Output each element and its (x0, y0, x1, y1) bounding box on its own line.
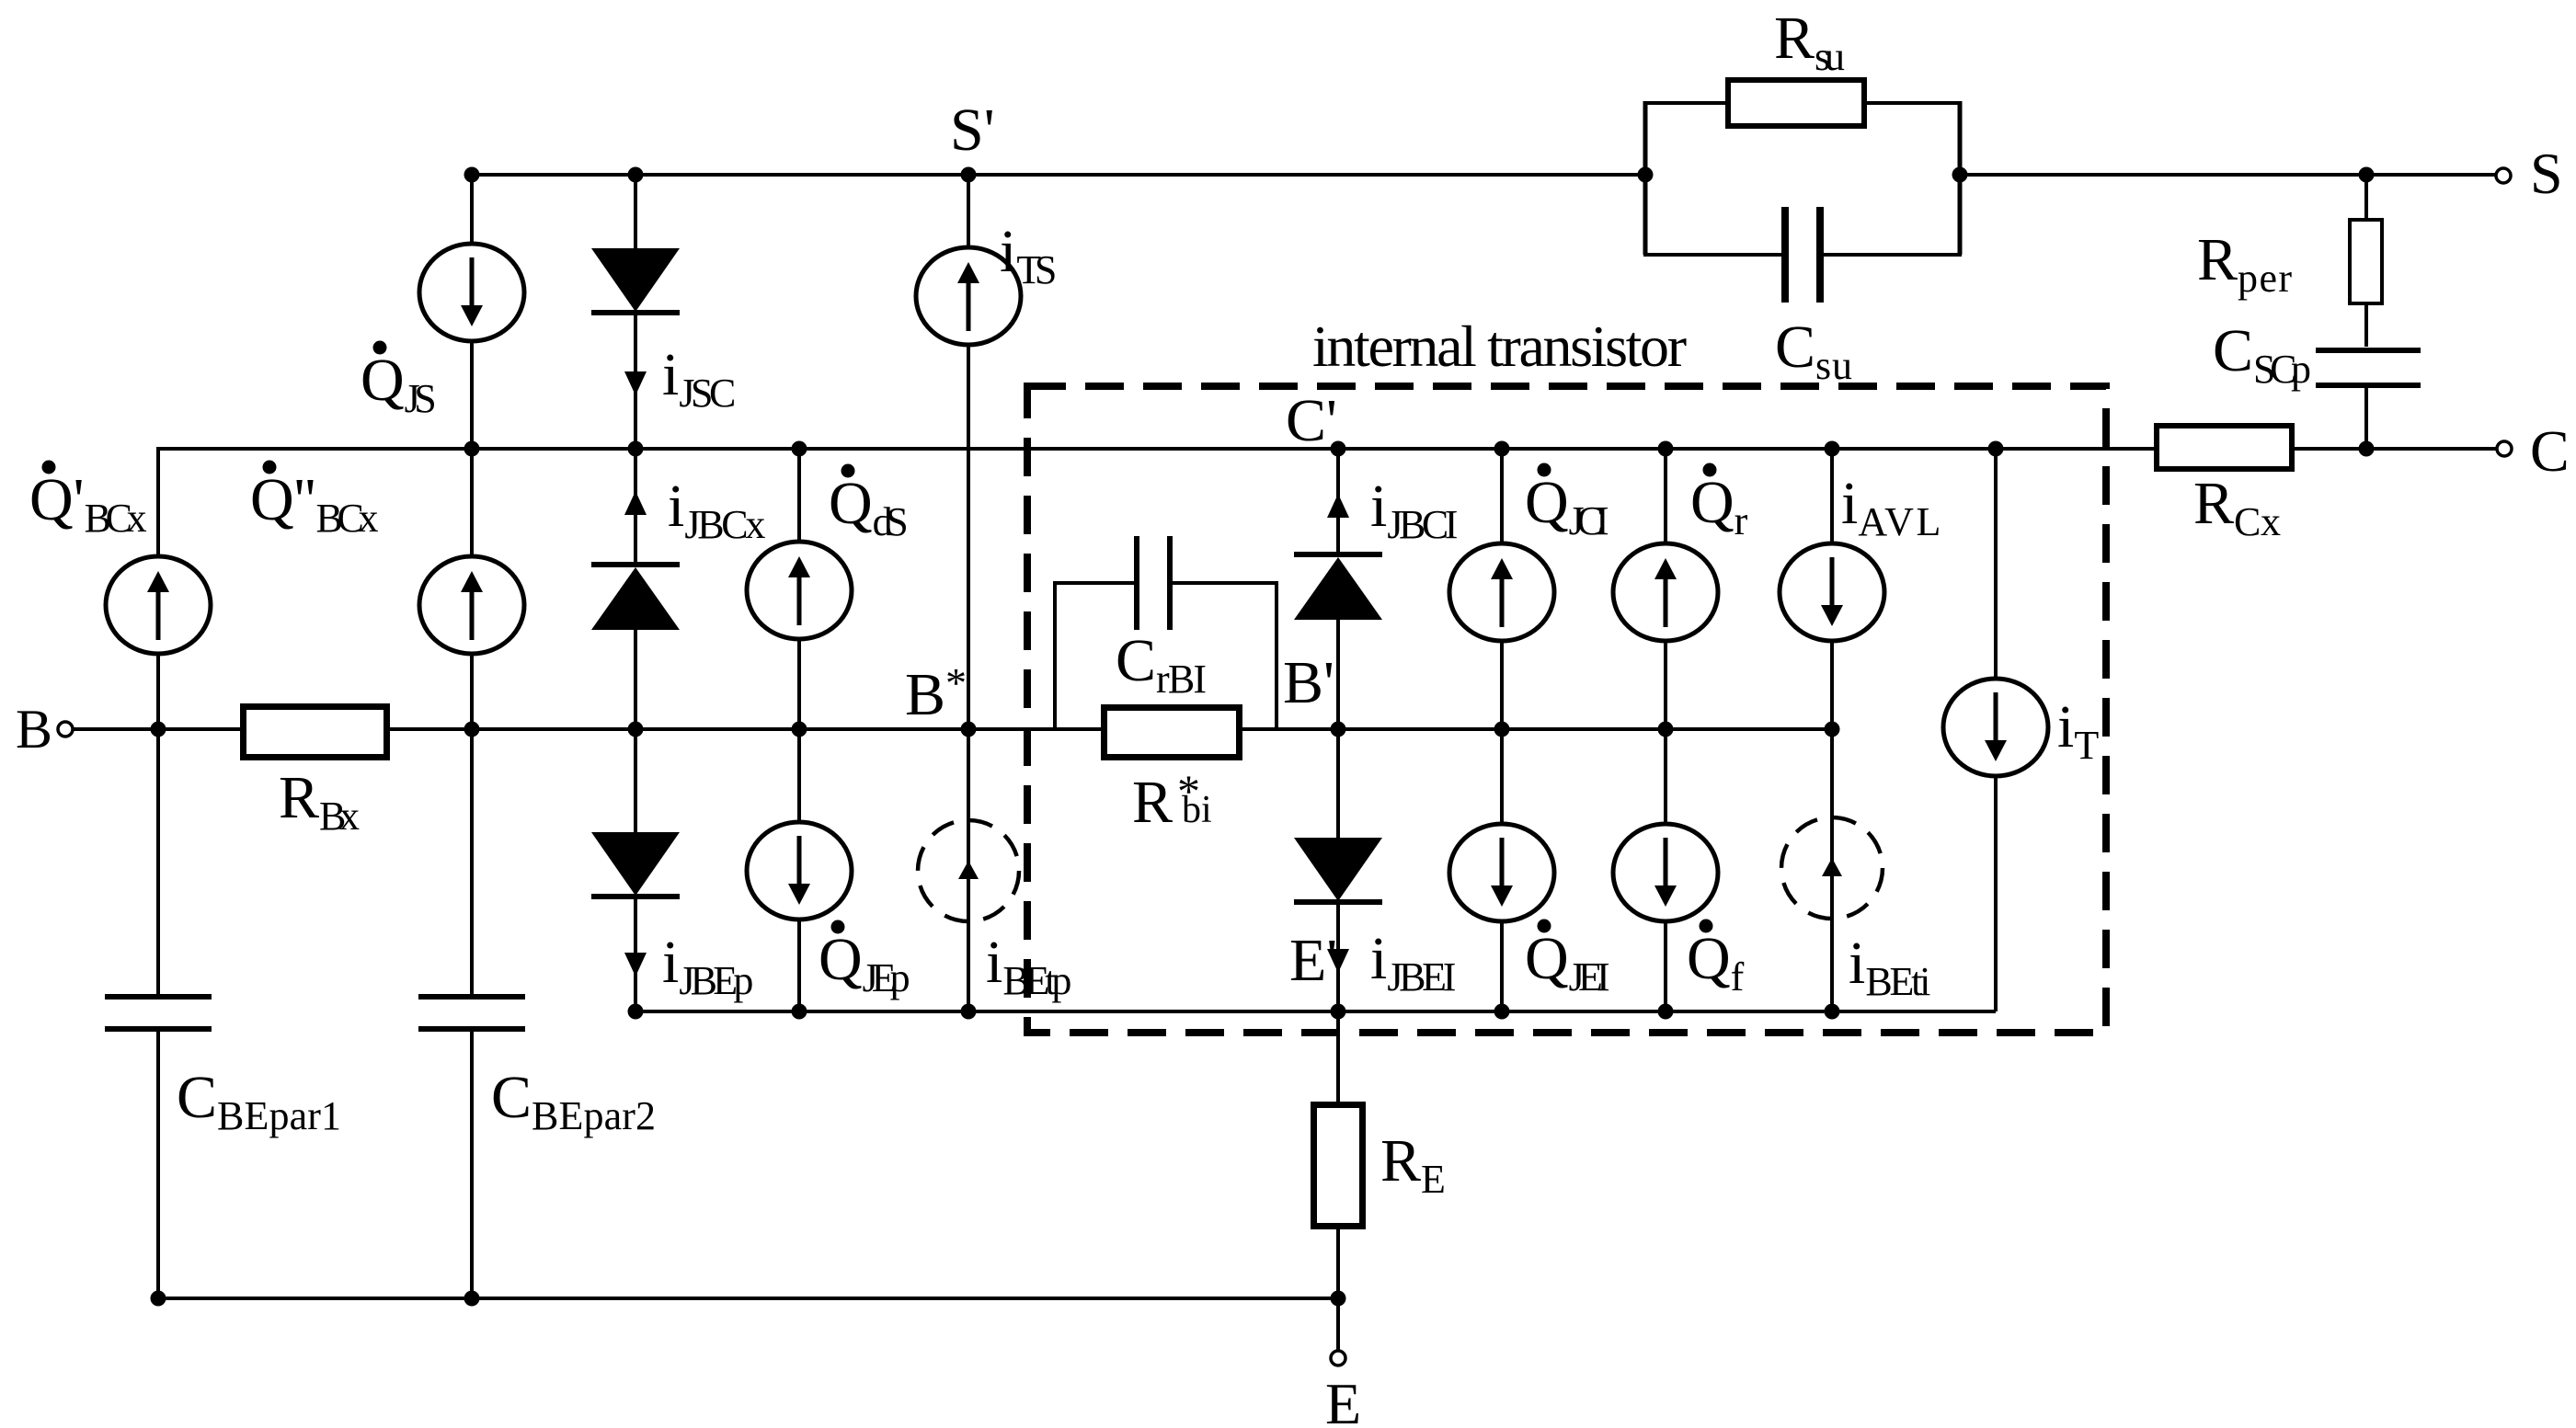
current source iAVL (1780, 543, 1884, 641)
wire C rail down to QdS (797, 449, 801, 543)
junction B rail at diode column (628, 722, 644, 737)
junction B rail at QJEp column (792, 722, 807, 737)
wire diode iJBCx to B rail (634, 629, 637, 729)
capacitor CBEpar1 plate top (105, 994, 212, 1000)
junction bottom rail at RE column (1331, 1291, 1346, 1307)
current source QdS (747, 542, 852, 639)
junction bottom rail at CBEpar1 (151, 1291, 166, 1307)
wire C' down to diode iJBCI (1336, 449, 1340, 554)
wire E' down to RE (1336, 1011, 1340, 1105)
resistor Rsu parallel bracket left (1643, 101, 1648, 255)
wire Rper top (2364, 175, 2368, 221)
resistor Rsu (1728, 80, 1864, 126)
wire iT to E rail (1994, 775, 1998, 1011)
junction B rail at QJEI column (1494, 722, 1510, 737)
wire QpBCx bottom to B rail (156, 654, 160, 729)
svg-text:bi: bi (1182, 789, 1212, 831)
junction E rail at iBEtp column (961, 1004, 977, 1020)
wire E parasitic rail (635, 1010, 1996, 1013)
junction dot S rail at Qjs column (464, 167, 480, 183)
capacitor CBEpar1 plate bottom (105, 1026, 212, 1032)
wire Rper bottom to CSCp (2364, 303, 2368, 347)
wire CrBI bracket top right (1173, 581, 1278, 585)
junction C rail at iAVL column (1825, 441, 1840, 457)
junction E rail at QJEI column (1494, 1004, 1510, 1020)
wire B rail down to CBEpar2 (470, 729, 474, 995)
wire Rsu top branch left (1643, 101, 1727, 105)
wire C rail down to QppBCx (470, 449, 474, 556)
capacitor CBEpar2 plate top (418, 994, 525, 1000)
wire CrBI bracket top left (1053, 581, 1134, 585)
wire Csu bottom branch left (1643, 253, 1781, 257)
wire B rail RBx to Rbi (389, 727, 1102, 731)
wire S rail left segment S' (472, 173, 1645, 177)
arrow iJSC direction (624, 371, 647, 395)
capacitor Csu plate right (1816, 207, 1824, 303)
wire B rail down to Qf (1664, 729, 1667, 825)
arrow iJBCx direction (624, 491, 647, 515)
wire S' down to iTS (967, 175, 970, 248)
current source QJCI (1449, 543, 1554, 641)
svg-text:C': C' (1286, 387, 1337, 454)
internal transistor dashed box (1027, 386, 2106, 1033)
current source QJEI (1449, 824, 1554, 921)
wire C rail down to QJCI (1500, 449, 1504, 544)
resistor Rper (2350, 220, 2382, 303)
wire B rail down to QJEp (797, 729, 801, 823)
wire diode iJBEp to E rail (634, 899, 637, 1011)
junction C rail at QdS column (792, 441, 807, 457)
svg-text:R: R (1132, 769, 1173, 836)
wire B rail down to CBEpar1 (156, 729, 160, 995)
junction E rail at QJEp column (792, 1004, 807, 1020)
svg-text:B': B' (1283, 649, 1334, 716)
junction C rail at QJS column (464, 441, 480, 457)
capacitor CrBI plate right (1167, 536, 1173, 630)
wire column QpBCx top (156, 447, 160, 556)
current source iBEtp dashed (918, 820, 1019, 921)
junction B rail at QppBCx column (464, 722, 480, 737)
wire iAVL to B rail (1830, 640, 1834, 729)
wire bottom emitter rail (158, 1297, 1338, 1300)
current source QppBCx (419, 556, 524, 654)
diode iJSC (591, 248, 680, 312)
wire B terminal to RBx (73, 727, 241, 731)
resistor RE (1314, 1105, 1363, 1227)
terminal E (1331, 1351, 1345, 1365)
wire C rail main (158, 447, 2156, 451)
capacitor CrBI plate left (1134, 536, 1139, 630)
node B* junction dot (961, 722, 977, 737)
capacitor Csu plate left (1781, 207, 1789, 303)
junction B rail at iBEti column (1825, 722, 1840, 737)
current source QJS (419, 244, 524, 341)
wire C rail right of RCx to C terminal (2293, 447, 2497, 451)
node E' junction dot (1331, 1004, 1346, 1020)
svg-text:E: E (1325, 1371, 1361, 1428)
wire C rail down to iT (1994, 449, 1998, 680)
current source Qf (1613, 824, 1718, 921)
wire B' down to diode iJBEI (1336, 729, 1340, 840)
wire QppBCx bottom to B rail (470, 654, 474, 729)
wire CSCp bottom to C rail (2364, 385, 2368, 449)
wire B rail down to QJEI (1500, 729, 1504, 825)
arrow iJBCI direction (1327, 494, 1349, 518)
svg-text:E': E' (1289, 927, 1337, 994)
resistor Rsu parallel bracket right (1958, 101, 1963, 255)
junction B rail at Qf column (1658, 722, 1674, 737)
svg-text:internal transistor: internal transistor (1312, 314, 1687, 379)
wire diode iJBEI to E' (1336, 905, 1340, 1011)
wire QJEI to E rail (1500, 920, 1504, 1011)
wire Rsu top branch right (1865, 101, 1962, 105)
current source QJEp (747, 822, 852, 920)
terminal C (2497, 441, 2512, 456)
wire B* down through iBEtp to E rail (967, 729, 970, 1011)
junction E rail at diode column (628, 1004, 644, 1020)
terminal S (2496, 168, 2511, 183)
wire S rail right segment to S terminal (1960, 173, 2496, 177)
diode iJBEp (591, 832, 680, 896)
arrow iJBEp direction (624, 953, 647, 977)
diode iJBCI (1294, 552, 1382, 557)
junction dot S rail at diode column (628, 167, 644, 183)
svg-text:C: C (2530, 418, 2570, 484)
wire RE to E terminal (1336, 1227, 1340, 1351)
junction B rail at QpBCx column (151, 722, 166, 737)
wire S rail down to QJS (470, 175, 474, 245)
svg-text:B: B (16, 699, 52, 760)
junction C rail at QJCI column (1494, 441, 1510, 457)
svg-text:S': S' (950, 97, 995, 164)
node C' junction dot (1331, 441, 1346, 457)
wire C rail down to diode iJBCx (634, 449, 637, 564)
wire B rail Rbi to iAVL column (1242, 727, 1832, 731)
wire iTS down through C rail to B* (967, 344, 970, 729)
wire diode iJBCI to B' (1336, 619, 1340, 729)
wire Qf to E rail (1664, 920, 1667, 1011)
wire QJS bottom to C rail (470, 340, 474, 449)
wire QJCI to B rail (1500, 640, 1504, 729)
resistor RBx (244, 707, 387, 758)
wire iAVL column B rail to E rail through iBEti (1830, 729, 1834, 1011)
wire CBEpar1 to bottom rail (156, 1031, 160, 1298)
diode iJBCx (591, 562, 680, 567)
resistor Rbi star (1105, 708, 1240, 758)
junction dot S rail at Rsu left (1638, 167, 1654, 183)
junction bottom rail at CBEpar2 (464, 1291, 480, 1307)
current source iTS (916, 247, 1021, 345)
wire Qr to B rail (1664, 640, 1667, 729)
capacitor CSCp plate top (2316, 348, 2421, 353)
current source Qr (1613, 543, 1718, 641)
svg-text:S: S (2530, 141, 2563, 206)
wire diode iJSC to C rail (634, 315, 637, 449)
junction dot S rail at Rper column (2359, 167, 2375, 183)
node B' junction dot (1331, 722, 1346, 737)
junction C rail at diode column (628, 441, 644, 457)
wire B rail down to diode iJBEp (634, 729, 637, 834)
node S' junction dot (961, 167, 977, 183)
junction C rail at Qr column (1658, 441, 1674, 457)
wire S rail down to diode iJSC (634, 175, 637, 250)
capacitor CrBI bracket left vertical (1053, 583, 1057, 729)
junction E rail at iBEti column (1825, 1004, 1840, 1020)
wire QdS to B rail (797, 638, 801, 729)
wire Csu bottom branch right (1824, 253, 1962, 257)
wire QJEp to E rail (797, 919, 801, 1011)
junction C rail at iT column (1988, 441, 2004, 457)
wire CrBI bracket right vertical (1275, 583, 1278, 729)
junction dot C rail at Rper column (2359, 441, 2375, 457)
wire C rail down to iAVL (1830, 449, 1834, 544)
junction dot S rail at Rsu right (1952, 167, 1968, 183)
junction E rail at Qf column (1658, 1004, 1674, 1020)
current source iT (1943, 679, 2048, 776)
arrow iJBEI direction (1327, 949, 1349, 973)
wire C rail down to Qr (1664, 449, 1667, 544)
wire CBEpar2 to bottom rail (470, 1031, 474, 1298)
capacitor CBEpar2 plate bottom (418, 1026, 525, 1032)
current source iBEti dashed (1781, 817, 1883, 919)
current source QpBCx (106, 556, 211, 654)
capacitor CSCp plate bottom (2316, 383, 2421, 388)
resistor RCx (2157, 426, 2292, 469)
terminal B (58, 722, 73, 737)
diode iJBEI (1294, 838, 1382, 901)
